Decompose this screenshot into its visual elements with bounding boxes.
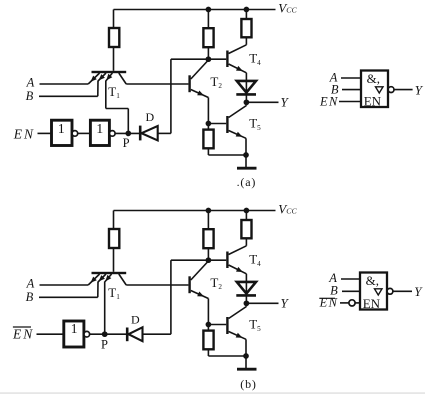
wire T4 emitter to diode (circuit b)	[245, 274, 247, 307]
wire T4 emitter to diode (circuit a)	[245, 73, 247, 106]
node T2 collector junction (circuit b)	[206, 257, 212, 263]
input wire A (circuit a)	[40, 83, 89, 85]
svg-text:.(a): .(a)	[237, 175, 257, 189]
transistor T1 emitter 1 (input A) (circuit b)	[88, 274, 99, 285]
svg-text:B: B	[26, 89, 34, 103]
svg-text:EN: EN	[363, 296, 381, 311]
input wire A (circuit b symbol)	[341, 278, 360, 280]
wire output Y (circuit a)	[246, 101, 278, 103]
transistor T5 base bar (circuit b)	[226, 317, 228, 334]
tri-state triangle (circuit b symbol)	[375, 289, 383, 295]
input wire EN-bar with bubble (circuit b symbol)	[319, 297, 335, 299]
svg-text:EN: EN	[12, 327, 34, 342]
transistor T5 base bar (circuit a)	[226, 116, 228, 133]
wire G1 to G2 (circuit a)	[78, 132, 91, 134]
transistor T1 collector (circuit a)	[119, 73, 126, 84]
scan artifact: faint band at bottom edge	[0, 392, 425, 394]
svg-text:B: B	[26, 290, 34, 304]
wire T5 base (circuit b)	[208, 324, 226, 326]
transistor T5 emitter (circuit b)	[229, 332, 246, 340]
transistor T4 collector (circuit b)	[229, 246, 247, 255]
wire G2 output to node P and diode (circuit a)	[115, 132, 139, 134]
inverter G1 (circuit a)	[52, 120, 73, 145]
wire R3 bottom to emitter node (circuit b)	[208, 355, 246, 357]
transistor T1 emitter 2 (input B) (circuit b)	[98, 274, 106, 282]
wire G1 output to node P and diode (circuit b)	[90, 333, 126, 335]
wire diode D to T2 collector node (circuit a)	[158, 132, 171, 134]
logic symbol U1: tri-state NAND (circuit a)	[361, 71, 388, 108]
node T2 collector junction (circuit a)	[206, 56, 212, 62]
transistor T2 collector (circuit a)	[191, 60, 209, 79]
node Vcc-R2 junction (circuit a)	[206, 7, 212, 13]
output wire Y (circuit b symbol)	[393, 290, 412, 292]
resistor R2 (phase-splitter collector) (circuit a)	[207, 10, 209, 29]
input wire EN (circuit a symbol)	[339, 101, 361, 103]
svg-text:A: A	[26, 277, 35, 291]
wire T2 collector to T4 base (circuit b)	[208, 259, 226, 261]
inverter G1 output bubble (circuit a)	[72, 131, 78, 137]
transistor T1 multi-emitter base bar (circuit a)	[92, 71, 127, 73]
diode D2 (output level shift) (circuit a)	[237, 81, 256, 93]
wire EN input (circuit b)	[37, 333, 64, 335]
transistor T4 base bar (circuit b)	[226, 252, 228, 269]
node T5 base junction (circuit a)	[206, 121, 212, 127]
inverter G2 (circuit a)	[90, 120, 109, 145]
wire T5 emitter to ground node (circuit a)	[245, 138, 247, 155]
output wire Y (circuit a symbol)	[394, 89, 413, 91]
transistor T2 base bar (circuit a)	[188, 75, 190, 92]
resistor R4 (output collector) (circuit b)	[245, 211, 247, 221]
svg-text:EN: EN	[319, 296, 339, 310]
transistor T1 emitter 3 to node P (circuit b)	[105, 274, 112, 282]
transistor T2 emitter (circuit a)	[191, 90, 209, 98]
transistor T1 emitter 2 (input B) (circuit a)	[98, 73, 106, 81]
svg-text:D: D	[131, 313, 140, 327]
transistor T4 emitter (circuit a)	[229, 64, 247, 73]
input wire B (circuit b symbol)	[342, 290, 360, 292]
transistor T2 emitter (circuit b)	[191, 291, 209, 299]
resistor R2 (phase-splitter collector) (circuit b)	[207, 211, 209, 230]
transistor T2 base bar (circuit b)	[188, 276, 190, 293]
resistor R4 (output collector) (circuit a)	[245, 10, 247, 20]
svg-text:&,: &,	[366, 273, 379, 288]
transistor T4 emitter (circuit b)	[229, 265, 247, 274]
wire Vcc rail (circuit b)	[114, 210, 276, 212]
node T5 base junction (circuit b)	[206, 322, 212, 328]
wire R3 bottom to emitter node (circuit a)	[208, 154, 246, 156]
svg-text:A: A	[26, 76, 35, 90]
wire output Y (circuit b)	[246, 302, 278, 304]
inverter G1 (circuit b)	[64, 321, 84, 347]
input wire B (circuit a symbol)	[342, 89, 361, 91]
wire T1 collector to T2 base (circuit b)	[126, 284, 188, 286]
svg-text:EN: EN	[364, 93, 382, 108]
input wire B (circuit a)	[39, 95, 98, 97]
ground (circuit a)	[245, 155, 247, 168]
input wire B (circuit b)	[39, 296, 98, 298]
wire EN input (circuit a)	[38, 132, 52, 134]
transistor T1 emitter 1 (input A) (circuit a)	[88, 73, 99, 84]
diode D (tri-state control) (circuit b)	[126, 328, 129, 342]
svg-text:&,: &,	[367, 71, 380, 86]
resistor R1 (base resistor) (circuit b)	[113, 211, 115, 230]
input wire A (circuit a symbol)	[341, 77, 361, 79]
wire diode D to T2 collector node (circuit b)	[143, 333, 171, 335]
diode D (tri-state control) (circuit a)	[139, 126, 142, 141]
resistor R1 (base resistor) (circuit a)	[113, 10, 115, 29]
tri-state triangle (circuit a symbol)	[376, 87, 384, 93]
svg-text:(b): (b)	[240, 377, 256, 391]
svg-text:EN: EN	[13, 127, 35, 142]
diode D2 (output level shift) (circuit b)	[237, 282, 256, 294]
wire T5 base (circuit a)	[208, 123, 226, 125]
inverter G2 output bubble (circuit a)	[110, 131, 116, 137]
label EN-bar (circuit b)	[13, 326, 31, 328]
svg-text:EN: EN	[319, 95, 339, 109]
wire T1 collector to T2 base (circuit a)	[126, 83, 188, 85]
transistor T2 collector (circuit b)	[191, 261, 209, 280]
transistor T4 base bar (circuit a)	[226, 51, 228, 68]
wire T2 collector to T4 base (circuit a)	[208, 58, 226, 60]
input wire A (circuit b)	[40, 284, 89, 286]
output bubble (circuit a symbol)	[388, 87, 394, 93]
node ground junction (circuit b)	[243, 353, 249, 359]
wire Vcc rail (circuit a)	[114, 9, 276, 11]
transistor T1 collector (circuit b)	[119, 274, 126, 285]
output bubble (circuit b symbol)	[387, 288, 393, 294]
transistor T5 collector (circuit b)	[229, 307, 247, 319]
node Vcc-R2 junction (circuit b)	[206, 208, 212, 214]
node output Y junction (circuit b)	[244, 300, 250, 306]
wire T5 emitter to ground node (circuit b)	[245, 339, 247, 356]
svg-text:D: D	[146, 110, 155, 124]
transistor T4 collector (circuit a)	[229, 45, 247, 54]
resistor R3 (emitter resistor) (circuit a)	[203, 130, 213, 149]
transistor T5 emitter (circuit a)	[229, 131, 246, 139]
logic symbol U2: tri-state NAND (circuit b)	[360, 273, 387, 310]
node Vcc-R4 junction (circuit a)	[244, 7, 250, 13]
node output Y junction (circuit a)	[244, 99, 250, 105]
node P (circuit b)	[102, 331, 108, 337]
inverter G1 output bubble (circuit b)	[84, 331, 90, 337]
transistor T5 collector (circuit a)	[229, 106, 247, 118]
transistor T1 emitter 3 to node P (circuit a)	[106, 73, 113, 81]
wire T2 emitter down to T5 base node (circuit a)	[207, 98, 209, 130]
svg-text:1: 1	[71, 321, 78, 336]
transistor T1 multi-emitter base bar (circuit b)	[92, 272, 127, 274]
ground (circuit b)	[245, 356, 247, 369]
resistor R3 (emitter resistor) (circuit b)	[203, 331, 213, 350]
node Vcc-R4 junction (circuit b)	[244, 208, 250, 214]
svg-text:1: 1	[58, 122, 65, 137]
wire T2 emitter down to T5 base node (circuit b)	[207, 299, 209, 331]
node P (circuit a)	[125, 131, 131, 137]
svg-text:P: P	[123, 136, 130, 150]
node ground junction (circuit a)	[243, 152, 249, 158]
svg-text:P: P	[101, 337, 108, 351]
svg-text:1: 1	[96, 122, 103, 137]
